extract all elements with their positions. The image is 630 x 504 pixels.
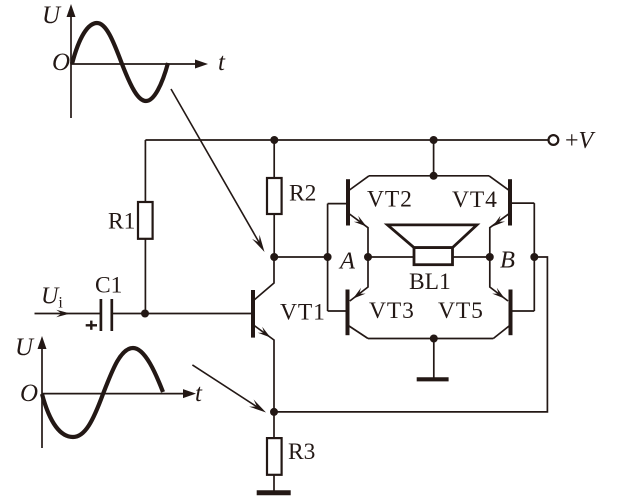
svg-text:t: t bbox=[218, 49, 226, 76]
wire right base line vertical bbox=[533, 203, 535, 311]
VT5 base wire bbox=[513, 310, 535, 312]
top supply rail wire bbox=[145, 139, 548, 141]
wire to left base line bbox=[274, 256, 327, 258]
C1 plus sign bbox=[86, 324, 97, 326]
node (bridge bottom) bbox=[430, 335, 438, 343]
svg-text:R3: R3 bbox=[288, 439, 315, 465]
input wire with arrow bbox=[35, 313, 101, 315]
wire bridge bottom horizontal bbox=[368, 338, 493, 340]
wire speaker to B bbox=[453, 256, 490, 258]
node A bbox=[364, 253, 372, 261]
wire R2 branch bbox=[273, 140, 275, 178]
svg-text:VT4: VT4 bbox=[452, 187, 498, 213]
svg-text:VT1: VT1 bbox=[280, 300, 326, 326]
node (VT1 collector / R2 bottom) bbox=[270, 253, 278, 261]
ground (R3) bbox=[257, 490, 291, 495]
VT5 emitter (from node B) bbox=[490, 257, 508, 301]
resistor R2 bbox=[267, 178, 282, 214]
sine wave (top graph) bbox=[72, 23, 168, 101]
VT5 collector bbox=[493, 326, 509, 339]
transistor VT4 bar bbox=[508, 179, 512, 225]
transistor VT1 bar bbox=[251, 290, 255, 338]
node (left base line) bbox=[324, 253, 332, 261]
svg-text:C1: C1 bbox=[95, 273, 122, 299]
feedback wire (bases to VT1 emitter) bbox=[274, 257, 547, 412]
wire R3 branch bbox=[273, 412, 275, 438]
svg-text:+V: +V bbox=[565, 128, 596, 154]
wire bridge top right diagonal bbox=[489, 176, 509, 191]
resistor R3 bbox=[267, 438, 282, 475]
VT3 collector bbox=[348, 326, 368, 339]
resistor R1 bbox=[138, 202, 153, 239]
svg-text:O: O bbox=[20, 380, 38, 407]
node dot (R1 bottom / input) bbox=[141, 310, 149, 318]
wire bridge top horizontal bbox=[369, 175, 489, 177]
VT3 base wire bbox=[328, 310, 346, 312]
transistor VT3 bar bbox=[346, 290, 350, 336]
bridge top feed wire bbox=[433, 140, 435, 176]
node (bridge top) bbox=[430, 172, 438, 180]
svg-text:U: U bbox=[42, 2, 62, 29]
ground (bridge) bbox=[417, 377, 449, 381]
waveform graph bottom-left: U axis bbox=[41, 346, 43, 448]
transistor VT5 bar bbox=[509, 290, 513, 336]
speaker BL1 box bbox=[414, 248, 453, 265]
waveform graph top-left: U axis bbox=[70, 14, 72, 118]
VT2 emitter bbox=[349, 214, 368, 258]
node (right base line) bbox=[530, 253, 538, 261]
svg-text:VT5: VT5 bbox=[438, 298, 484, 324]
svg-text:A: A bbox=[338, 248, 356, 275]
waveform graph bottom-left: t axis bbox=[42, 393, 186, 395]
svg-text:O: O bbox=[52, 49, 70, 76]
wire R1 branch vertical bbox=[144, 140, 146, 202]
svg-text:VT3: VT3 bbox=[369, 298, 415, 324]
node (rail / R2) bbox=[270, 136, 278, 144]
speaker BL1 horn bbox=[388, 225, 477, 248]
VT2 base wire bbox=[328, 203, 346, 205]
transistor VT2 bar bbox=[346, 179, 350, 225]
svg-text:B: B bbox=[500, 247, 515, 274]
svg-text:R2: R2 bbox=[289, 181, 316, 207]
svg-text:U: U bbox=[15, 334, 35, 361]
VT1 collector bbox=[254, 257, 275, 301]
VT4 base wire bbox=[512, 202, 534, 204]
svg-text:t: t bbox=[195, 380, 203, 407]
svg-text:R1: R1 bbox=[108, 209, 135, 235]
node (rail / bridge) bbox=[430, 136, 438, 144]
annotation arrow 1 (from top sine to VT1 collector node) bbox=[171, 89, 260, 244]
node (VT1 emitter / R3 / feedback) bbox=[270, 408, 278, 416]
VT1 emitter bbox=[254, 325, 275, 412]
svg-text:BL1: BL1 bbox=[409, 269, 451, 295]
VT4 emitter bbox=[490, 214, 509, 258]
wire C1 to VT1 base bbox=[112, 313, 252, 315]
node B bbox=[486, 253, 494, 261]
sine wave (bottom graph, inverted) bbox=[42, 348, 163, 437]
wire A to speaker bbox=[368, 256, 414, 258]
wire left base line vertical bbox=[327, 204, 329, 311]
annotation arrow 2 (from bottom sine to VT1 emitter node) bbox=[192, 365, 258, 408]
waveform graph top-left: t axis bbox=[71, 63, 198, 65]
svg-text:Ui: Ui bbox=[41, 284, 63, 312]
capacitor C1 bbox=[100, 299, 103, 331]
VT3 emitter (from node A) bbox=[350, 257, 368, 301]
svg-text:VT2: VT2 bbox=[367, 187, 413, 213]
wire bridge ground stem bbox=[433, 339, 435, 379]
terminal +V bbox=[549, 135, 559, 145]
VT2 collector bbox=[349, 176, 369, 191]
